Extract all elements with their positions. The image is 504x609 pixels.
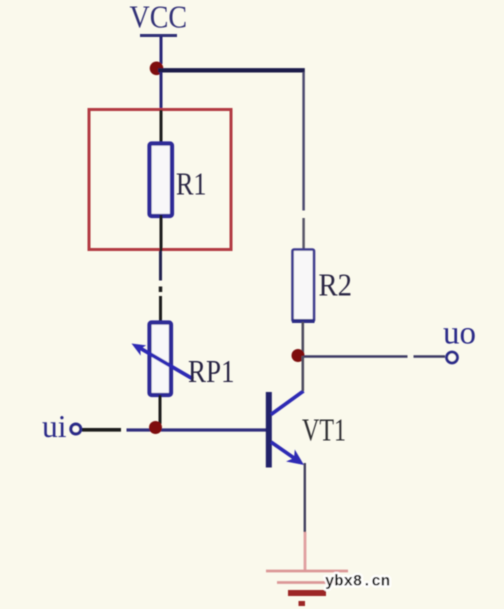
wire node A down into highlight box <box>160 72 163 110</box>
wire VCC bar to node A <box>160 36 163 64</box>
wire emitter down to ground <box>304 463 307 570</box>
node B junction dot <box>149 421 162 434</box>
terminal uo <box>443 316 476 363</box>
svg-text:R1: R1 <box>176 166 207 202</box>
svg-text:VCC: VCC <box>130 0 188 35</box>
wire below box with break <box>159 251 162 322</box>
wire box top to R1 <box>160 110 163 144</box>
wire ui black segment <box>82 428 121 432</box>
wire right vertical down to R2 <box>302 72 305 250</box>
svg-text:RP1: RP1 <box>188 353 235 389</box>
power symbol VCC <box>130 0 188 36</box>
svg-text:ybx8.cn: ybx8.cn <box>325 573 390 591</box>
highlight box around R1 <box>89 110 231 250</box>
wire node C down to collector <box>301 356 304 391</box>
wire top horizontal to R2 branch <box>158 68 305 72</box>
resistor R1 <box>150 144 207 217</box>
wire ui to transistor base <box>127 428 267 431</box>
svg-text:R2: R2 <box>319 267 353 303</box>
potentiometer RP1 <box>132 323 235 396</box>
watermark ybx8.cn <box>325 573 390 591</box>
wire R2 bottom to node C <box>301 322 304 356</box>
terminal ui <box>42 408 81 444</box>
wire node C to uo with break <box>304 355 445 358</box>
svg-text:VT1: VT1 <box>302 413 346 448</box>
wire RP1 bottom to node B <box>159 395 162 424</box>
svg-text:ui: ui <box>42 408 67 444</box>
node C junction dot <box>292 349 305 362</box>
svg-text:uo: uo <box>443 316 476 352</box>
resistor R2 <box>292 250 352 322</box>
wire R1 bottom to box bottom <box>160 215 163 251</box>
transistor VT1 <box>266 391 346 468</box>
ground <box>266 571 348 604</box>
node A junction dot <box>150 62 164 76</box>
